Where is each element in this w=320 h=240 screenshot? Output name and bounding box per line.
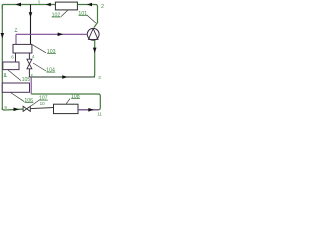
wire purple vertical x16 into box 103 top (pipe 7) <box>15 34 17 44</box>
purple vertical bypass x31.2 <box>30 77 32 93</box>
pipe from box 103 bottom to valve 104 <box>28 53 30 59</box>
compressor discharge-down wire x94.7 <box>92 40 95 77</box>
label 104 leader <box>33 63 46 71</box>
wire vertical from top line into box 103 (pipe down at x30) <box>30 5 32 45</box>
svg-text:108: 108 <box>71 94 80 100</box>
arrow on top wire near box pointing left <box>46 3 51 7</box>
svg-text:101: 101 <box>78 11 87 17</box>
label 104 <box>46 67 55 73</box>
arrow on suction wire pointing right <box>58 33 64 37</box>
condenser box 102 <box>55 2 77 10</box>
wire left vertical <box>1 5 3 110</box>
arrow on right top wire pointing left <box>87 3 92 7</box>
label 101 leader <box>87 15 96 23</box>
label 102 leader <box>61 10 68 16</box>
label 108 <box>71 94 80 100</box>
svg-text:103: 103 <box>47 49 56 55</box>
valve 107 <box>23 106 30 111</box>
svg-text:4: 4 <box>32 54 35 59</box>
label 105 <box>22 77 31 83</box>
label 103 <box>47 49 56 55</box>
label 2 <box>101 4 104 10</box>
wire from box 102 right to compressor (pipe 2) <box>77 5 97 28</box>
label 11 <box>97 112 102 117</box>
svg-text:10: 10 <box>40 101 46 106</box>
label 103 leader <box>33 45 47 53</box>
svg-text:8: 8 <box>4 72 7 77</box>
svg-text:9: 9 <box>4 105 7 110</box>
green horizontal y94 <box>31 93 100 109</box>
label 108 leader <box>66 99 70 105</box>
suction wire horizontal to compressor (purple) <box>16 33 87 35</box>
svg-text:3: 3 <box>98 75 101 80</box>
compressor U101 circle <box>87 28 99 40</box>
arrow on bottom wire pointing right <box>14 108 20 112</box>
purple wire box 108 to right corner <box>78 109 99 111</box>
wire top-left horizontal (pipe 1) <box>2 5 55 10</box>
svg-text:102: 102 <box>52 12 61 18</box>
svg-text:11: 11 <box>97 112 102 117</box>
svg-text:6: 6 <box>11 55 14 60</box>
box 106 <box>2 83 29 92</box>
label 9 <box>4 105 7 110</box>
svg-text:105: 105 <box>22 77 31 83</box>
pipe from valve 104 to junction <box>28 69 30 77</box>
svg-text:2: 2 <box>101 4 104 10</box>
evaporator return wire horizontal y76.5 <box>29 76 95 78</box>
label 8 <box>4 72 7 77</box>
arrow on left vertical pointing down <box>1 33 5 39</box>
arrow on top wire pointing left <box>15 3 21 7</box>
label 4 <box>32 54 35 59</box>
pipe 6 between box 103 and box 105 <box>15 53 17 62</box>
label 106 leader <box>11 93 25 102</box>
bottom-left wire with corner <box>2 108 23 110</box>
arrow on x94.7 wire pointing down <box>93 48 97 53</box>
label 107 leader <box>31 100 39 106</box>
arrow on x30 vertical pointing down <box>29 12 33 17</box>
expansion valve 104 <box>27 59 32 69</box>
arrow on y77 wire pointing right <box>62 75 68 79</box>
label 1 <box>38 1 41 7</box>
label 6 <box>11 55 14 60</box>
label 107 <box>39 96 48 102</box>
label 102 <box>52 12 61 18</box>
svg-text:104: 104 <box>46 67 55 73</box>
svg-text:106: 106 <box>24 98 33 104</box>
label 3 <box>98 75 101 80</box>
label 7 <box>15 27 18 32</box>
label 101 <box>78 11 87 17</box>
arrow on purple bottom-right wire pointing right <box>88 108 94 112</box>
wire valve 107 to box 108 <box>30 108 53 109</box>
label 10 <box>40 101 46 106</box>
box 105 <box>3 62 19 70</box>
label 105 leader <box>8 70 21 81</box>
svg-text:1: 1 <box>38 1 41 7</box>
box 108 <box>54 104 79 113</box>
label 106 <box>24 98 33 104</box>
receiver box 103 <box>13 44 32 53</box>
label 5 <box>31 74 34 79</box>
